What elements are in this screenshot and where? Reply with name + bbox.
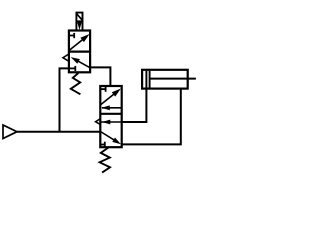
valve V1 exhaust chevron (left) (63, 54, 69, 61)
valve V1 flow arrow (bottom box) (71, 57, 90, 68)
cylinder piston (146, 71, 149, 88)
valve V1 blocked port T (bottom box) (69, 66, 75, 71)
valve V1 blocked port T (top box) (69, 33, 74, 38)
valve V2 diagonal flow arrow (top box) (101, 89, 121, 105)
wire V2 port B to cylinder rod end (122, 88, 181, 144)
valve V1 flow arrow (top box) (69, 34, 90, 51)
wire V1 out to V2 pilot (90, 67, 111, 87)
valve V2 exhaust chevron (left) (96, 119, 101, 125)
valve V2 diagonal flow arrow (bottom box) (100, 132, 121, 145)
valve V2 blocked port T (bottom box) (100, 142, 105, 147)
wire riser to upper valve (60, 68, 69, 131)
valve V1 body (upper 3/2 valve) (69, 31, 90, 73)
spring below valve V1 (71, 73, 81, 94)
cylinder body (142, 70, 188, 89)
spring below valve V2 (100, 148, 110, 173)
wire V2 port A to cylinder cap end (122, 88, 147, 122)
compressed air source triangle (3, 125, 17, 139)
wire supply line (17, 131, 101, 133)
valve V2 body (lower valve) (100, 86, 121, 147)
pilot head symbol on valve V1 (76, 13, 82, 31)
valve V2 horizontal flow arrow (bottom box) (101, 120, 122, 125)
cylinder piston rod (150, 78, 196, 80)
valve V2 horizontal flow arrow (top box) (101, 105, 121, 110)
valve V2 blocked port T (top box) (100, 87, 105, 92)
